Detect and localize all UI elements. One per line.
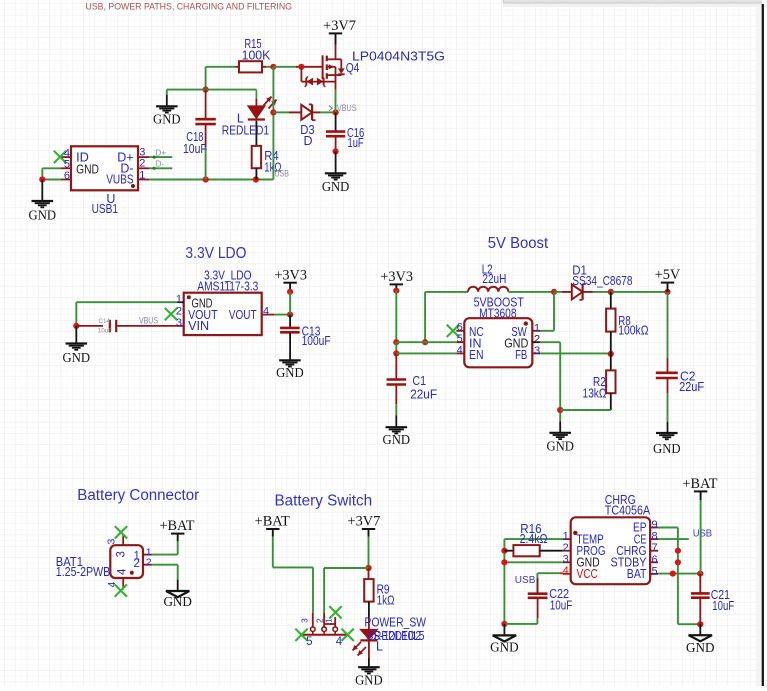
svg-text:VOUT: VOUT	[229, 308, 257, 322]
svg-text:USB: USB	[693, 528, 712, 540]
svg-text:GND: GND	[383, 432, 411, 447]
svg-text:VUBS: VUBS	[106, 172, 133, 186]
svg-text:D: D	[304, 134, 313, 148]
svg-text:6: 6	[457, 322, 463, 334]
svg-text:5: 5	[64, 159, 70, 171]
svg-text:9: 9	[652, 519, 658, 531]
svg-text:+3V3: +3V3	[380, 269, 413, 285]
svg-text:GND: GND	[63, 350, 91, 365]
svg-text:4: 4	[106, 582, 118, 588]
svg-text:3: 3	[300, 618, 310, 623]
svg-text:4: 4	[563, 565, 569, 577]
svg-text:100kΩ: 100kΩ	[618, 324, 648, 338]
svg-text:1: 1	[563, 530, 569, 542]
svg-text:C14: C14	[99, 318, 111, 325]
svg-text:2.4kΩ: 2.4kΩ	[520, 532, 548, 546]
svg-text:D+: D+	[155, 148, 166, 157]
svg-text:LP0404N3T5G: LP0404N3T5G	[352, 49, 445, 63]
svg-text:1: 1	[176, 293, 182, 305]
svg-text:1.25-2PWB: 1.25-2PWB	[56, 565, 111, 579]
svg-text:5: 5	[306, 636, 312, 648]
svg-text:3: 3	[534, 345, 540, 357]
svg-text:Q4: Q4	[346, 61, 360, 75]
svg-text:+BAT: +BAT	[255, 514, 290, 530]
svg-text:13kΩ: 13kΩ	[582, 386, 606, 400]
svg-text:USB1: USB1	[92, 202, 118, 216]
svg-text:1kΩ: 1kΩ	[377, 593, 395, 607]
svg-text:+3V7: +3V7	[348, 514, 381, 530]
svg-text:3.3V LDO: 3.3V LDO	[185, 245, 246, 262]
svg-text:VBUS: VBUS	[337, 103, 357, 114]
svg-text:5V Boost: 5V Boost	[488, 235, 549, 252]
svg-text:6: 6	[652, 554, 658, 566]
svg-text:10uF: 10uF	[98, 328, 113, 335]
svg-text:GND: GND	[153, 112, 181, 127]
svg-text:2: 2	[139, 158, 145, 170]
svg-text:+5V: +5V	[655, 267, 681, 283]
svg-text:3: 3	[176, 317, 182, 329]
svg-text:10uF: 10uF	[183, 142, 207, 156]
svg-text:2: 2	[146, 556, 152, 568]
svg-text:4: 4	[116, 568, 128, 575]
svg-text:7: 7	[652, 542, 658, 554]
svg-text:3: 3	[106, 539, 118, 545]
svg-text:GND: GND	[490, 639, 519, 654]
svg-text:3: 3	[139, 146, 145, 158]
svg-text:Battery Switch: Battery Switch	[275, 492, 373, 509]
svg-text:1: 1	[323, 618, 333, 623]
svg-text:VIN: VIN	[188, 319, 209, 333]
svg-text:USB: USB	[515, 574, 536, 586]
svg-text:5: 5	[457, 333, 463, 345]
svg-text:TC4056A: TC4056A	[605, 503, 651, 517]
svg-text:GND: GND	[163, 594, 192, 609]
svg-text:1: 1	[139, 169, 145, 181]
svg-text:22uF: 22uF	[679, 380, 704, 394]
svg-text:Battery Connector: Battery Connector	[77, 487, 199, 504]
svg-text:100K: 100K	[242, 48, 271, 62]
svg-text:4: 4	[336, 636, 343, 648]
svg-text:L: L	[376, 640, 383, 654]
svg-text:4: 4	[64, 147, 70, 159]
svg-text:2: 2	[134, 558, 140, 570]
svg-text:10uF: 10uF	[712, 599, 734, 613]
svg-text:AMS1117-3.3: AMS1117-3.3	[197, 279, 258, 293]
svg-text:2: 2	[534, 334, 540, 346]
svg-text:2: 2	[563, 542, 569, 554]
svg-text:GND: GND	[29, 207, 57, 222]
svg-text:GND: GND	[322, 179, 350, 194]
svg-text:4: 4	[263, 306, 269, 318]
svg-text:GND: GND	[546, 438, 574, 453]
svg-text:4: 4	[457, 344, 463, 356]
svg-text:22uF: 22uF	[410, 387, 437, 401]
svg-text:GND: GND	[653, 441, 681, 456]
svg-text:+3V7: +3V7	[323, 18, 356, 34]
svg-text:FB: FB	[515, 348, 527, 362]
svg-text:EN: EN	[469, 348, 484, 362]
svg-text:+BAT: +BAT	[159, 518, 194, 534]
svg-text:VBUS: VBUS	[139, 316, 158, 326]
svg-text:GND: GND	[686, 640, 715, 655]
svg-text:+BAT: +BAT	[682, 476, 717, 492]
svg-text:3: 3	[563, 554, 569, 566]
svg-text:BAT: BAT	[627, 567, 647, 581]
svg-text:GND: GND	[76, 162, 99, 176]
svg-text:6: 6	[64, 170, 70, 182]
svg-text:1uF: 1uF	[348, 136, 364, 150]
svg-text:GND: GND	[355, 673, 383, 686]
svg-text:+3V3: +3V3	[274, 267, 307, 283]
svg-text:8: 8	[652, 531, 658, 543]
svg-text:D-: D-	[156, 160, 165, 169]
svg-text:GND: GND	[276, 365, 304, 380]
svg-text:100uF: 100uF	[302, 334, 331, 348]
svg-text:REDLED1: REDLED1	[222, 124, 269, 138]
svg-text:22uH: 22uH	[482, 272, 506, 286]
svg-text:10uF: 10uF	[550, 598, 573, 612]
svg-text:C1: C1	[412, 374, 426, 388]
svg-text:SS34_C8678: SS34_C8678	[572, 274, 632, 288]
svg-text:VCC: VCC	[577, 567, 598, 581]
svg-text:USB, POWER PATHS, CHARGING AND: USB, POWER PATHS, CHARGING AND FILTERING	[86, 1, 293, 11]
svg-text:1: 1	[534, 322, 540, 334]
svg-text:3: 3	[116, 551, 128, 557]
svg-text:5: 5	[652, 565, 658, 577]
svg-text:2: 2	[176, 305, 182, 317]
svg-text:POWER_SW: POWER_SW	[364, 615, 426, 629]
